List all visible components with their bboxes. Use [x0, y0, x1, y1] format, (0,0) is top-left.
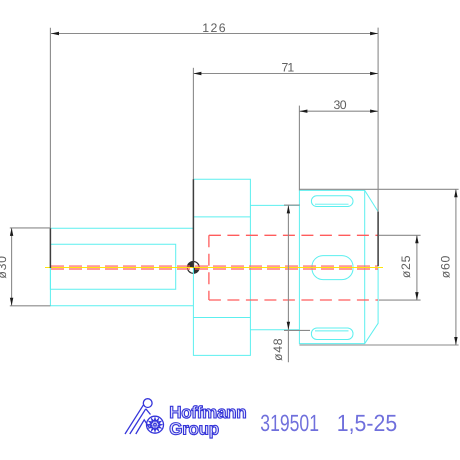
extension line left (126) [49, 28, 51, 228]
bore ø25 hidden line left cap [208, 235, 210, 300]
extension line right face [377, 28, 379, 212]
dimension line ø25 [416, 235, 418, 300]
flange lower edge line [193, 317, 250, 319]
centerline (yellow) [45, 267, 383, 269]
dimension line ø30 [11, 228, 13, 306]
ø48 section top edge [250, 204, 299, 206]
bore ø1.5 hidden line bottom [51, 268, 378, 270]
nut top slot inner line [315, 203, 349, 205]
svg-text:ø60: ø60 [439, 255, 453, 278]
shank ø30 outline [50, 228, 193, 306]
extension line flange face (71) [192, 68, 194, 179]
centre point marker [187, 262, 199, 274]
dimension ø30 extension bottom [10, 305, 51, 307]
flange face cyan stub over marker [192, 268, 194, 275]
dimension ø25 extension bottom [379, 299, 421, 301]
bore ø1.5 hidden line top [51, 265, 378, 267]
dimension line ø48 [287, 205, 289, 362]
clamping nut outline [299, 190, 378, 343]
flange upper edge line [193, 216, 250, 218]
nut bottom wrench slot [311, 328, 353, 340]
svg-text:71: 71 [281, 61, 295, 75]
nut bottom slot inner line [315, 330, 349, 332]
dimension ø60 extension bottom [299, 344, 458, 346]
part number text [260, 410, 397, 436]
dimension ø25 extension top [379, 234, 421, 236]
dimension line 126 [51, 33, 378, 35]
dimension line 71 [193, 73, 378, 75]
extension line nut face (30) [298, 106, 300, 191]
flange outline [193, 179, 250, 355]
dimension ø60 extension top [299, 188, 458, 190]
shank inner rectangle [50, 244, 175, 289]
dimension ø30 extension top [10, 227, 51, 229]
ø48 section bottom edge [250, 329, 299, 331]
Hoffmann Group logo mark [125, 399, 164, 434]
svg-text:ø48: ø48 [271, 338, 285, 361]
dimension line ø60 [455, 189, 457, 345]
svg-text:ø30: ø30 [0, 255, 9, 278]
svg-text:30: 30 [334, 98, 348, 112]
svg-text:319501: 319501 [260, 410, 319, 436]
svg-text:1,5-25: 1,5-25 [337, 410, 397, 436]
svg-text:ø25: ø25 [399, 255, 413, 278]
nut top wrench slot [311, 196, 353, 207]
dimension line 30 [299, 110, 378, 112]
dimension ø48 extension bottom [284, 329, 310, 331]
svg-text:Group: Group [169, 419, 219, 438]
svg-text:126: 126 [202, 21, 226, 35]
bore ø25 hidden line bottom [209, 299, 378, 301]
dimension ø48 extension top [284, 204, 300, 206]
nut middle wrench slot [312, 256, 353, 280]
bore ø25 hidden line top [209, 234, 378, 236]
nut cone base edge [364, 190, 366, 343]
